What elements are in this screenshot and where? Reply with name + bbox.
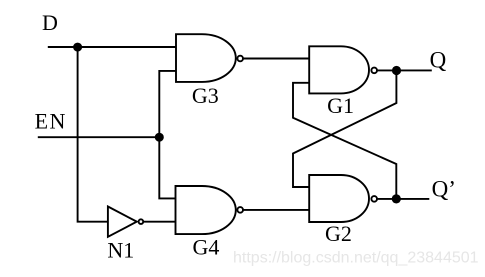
- wire EN riser up to G3 lower input: [159, 71, 176, 137]
- node Q' junction: [392, 194, 401, 203]
- wire Q' output: [377, 198, 429, 200]
- svg-text:G1: G1: [327, 93, 354, 118]
- nand gate G3: [176, 34, 243, 82]
- svg-text:https://blog.csdn.net/qq_23844: https://blog.csdn.net/qq_23844501: [233, 250, 479, 267]
- svg-text:G4: G4: [193, 235, 220, 260]
- svg-text:N1: N1: [107, 237, 134, 262]
- wire N1 output to G4 lower input: [143, 221, 175, 223]
- wire Q output: [377, 69, 432, 71]
- wire EN riser down to G4 upper input: [159, 137, 175, 198]
- nand gate G1: [309, 46, 377, 93]
- wire G4 output to G2 lower input: [244, 209, 310, 211]
- inverter N1: [108, 207, 143, 237]
- svg-text:Q’: Q’: [432, 177, 456, 202]
- wire Q' feedback to G1 lower input: [293, 83, 396, 199]
- wire D input: [48, 46, 176, 48]
- svg-text:G2: G2: [325, 221, 352, 246]
- svg-text:G3: G3: [192, 83, 219, 108]
- wire EN input: [38, 136, 160, 138]
- svg-text:Q: Q: [430, 48, 447, 73]
- wire G3 output to G1 upper input: [244, 58, 310, 60]
- node EN junction: [155, 133, 164, 142]
- svg-text:EN: EN: [35, 108, 67, 133]
- nand gate G2: [309, 175, 377, 222]
- node Q junction: [392, 66, 401, 75]
- svg-text:D: D: [42, 10, 58, 35]
- wire D riser to inverter N1 input: [78, 47, 108, 222]
- node D junction: [73, 43, 82, 52]
- wire Q feedback to G2 upper input: [293, 71, 396, 188]
- nand gate G4: [176, 186, 244, 234]
